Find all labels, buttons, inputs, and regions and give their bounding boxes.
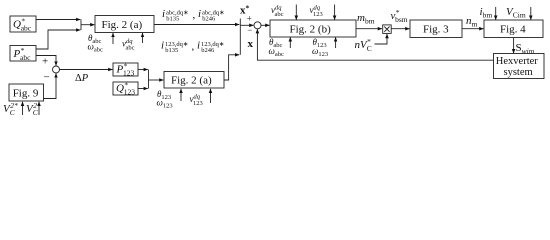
block Fig. 2 (a) bottom: [164, 72, 224, 89]
wire arrow theta/omega abc into Fig. 2 (a) top: [112, 33, 114, 44]
wire feedback x from Hexverter into S2: [257, 29, 493, 60]
svg-text:vdq123: vdq123: [190, 94, 203, 108]
wire arrow v dq 123 into Fig. 2 (a) bottom: [210, 89, 212, 103]
label i b135 abc,dq* , i b246 abc,dq*: [162, 8, 225, 22]
svg-text:Hexverter: Hexverter: [496, 56, 538, 67]
svg-text:VCim: VCim: [506, 6, 526, 20]
block Fig. 2 (a) top: [95, 16, 154, 33]
svg-text:Fig. 3: Fig. 3: [423, 24, 449, 36]
wire Qabc* to bus1: [36, 19, 80, 21]
wire multiplier to Fig. 3: [391, 28, 409, 30]
wire nVC* into multiplier bottom: [375, 34, 388, 44]
svg-text:+: +: [247, 13, 252, 23]
svg-text:Fig. 2 (a): Fig. 2 (a): [102, 19, 143, 31]
block Fig. 2 (b): [270, 20, 356, 37]
svg-text:ibm: ibm: [480, 6, 493, 20]
block P123*: [113, 62, 138, 78]
svg-text:vdqabc: vdqabc: [122, 38, 135, 52]
svg-text:v*bsm: v*bsm: [391, 8, 408, 24]
wire Fig. 3 to Fig. 4: [462, 28, 483, 30]
block Hexverter system: [494, 54, 545, 79]
svg-text:mbm: mbm: [357, 12, 375, 26]
svg-text:,: ,: [192, 40, 195, 52]
wire bus1 to Fig. 2 (a) top: [81, 24, 94, 26]
svg-text:−: −: [44, 72, 50, 84]
svg-text:vdqabc: vdqabc: [271, 5, 284, 19]
svg-text:i: i: [198, 8, 201, 20]
wire arrow theta/omega 123 into Fig. 2 (a) bottom: [180, 89, 182, 101]
bus2 vertical: [148, 70, 150, 89]
svg-text:b135: b135: [166, 15, 179, 22]
svg-text:i: i: [161, 40, 164, 52]
wire arrow v dq abc down into Fig. 2 (b): [295, 5, 297, 20]
wire VC2 arrow into Fig. 9: [38, 102, 40, 115]
wire S1 to P123*: [60, 69, 113, 71]
block Qabc*: [10, 16, 36, 33]
wire Fig. 4 down to Hexverter: [513, 38, 515, 54]
wire arrow i bm down into Fig. 4: [495, 7, 497, 20]
svg-text:Fig. 4: Fig. 4: [500, 24, 526, 36]
wire Fig. 2 (b) output m bm to multiplier: [356, 28, 382, 30]
wire arrow theta/omega 123 up into Fig. 2 (b): [335, 37, 337, 48]
svg-text:nm: nm: [466, 15, 478, 29]
svg-text:i: i: [197, 40, 200, 52]
svg-text:+: +: [42, 56, 48, 68]
svg-text:b135: b135: [165, 47, 178, 54]
wire Pabc* up to bus1: [36, 30, 80, 49]
wire arrow v dq 123 down into Fig. 2 (b): [334, 5, 336, 20]
wire Fig. 9 up into S1: [44, 74, 57, 99]
wire VC2* arrow into Fig. 9: [22, 102, 24, 115]
svg-text:Fig. 2 (b): Fig. 2 (b): [290, 23, 332, 35]
wire S2 to Fig. 2 (b): [261, 24, 269, 26]
sum junction S2 circle: [254, 22, 261, 29]
multiplier box with X: [383, 25, 392, 34]
svg-text:Fig. 2 (a): Fig. 2 (a): [171, 75, 212, 87]
wire P123* to bus2: [138, 69, 148, 71]
label i b135 123,dq* , i b246 123,dq*: [161, 40, 224, 54]
wire Fig. 2 (a) top output to bus3: [154, 24, 239, 26]
sum junction S1 circle: [53, 66, 60, 73]
bus3 vertical x*: [239, 19, 241, 55]
wire Pabc* down into S1: [36, 56, 56, 66]
svg-text:b246: b246: [202, 15, 216, 22]
svg-text:ΔP: ΔP: [75, 73, 89, 84]
wire arrow theta/omega abc up into Fig. 2 (b): [289, 37, 291, 48]
block Pabc*: [10, 46, 36, 63]
block Fig. 9: [9, 84, 44, 101]
block Q123*: [113, 81, 138, 97]
wire arrow v dq abc into Fig. 2 (a) top: [142, 33, 144, 43]
wire Fig. 2 (a) bottom output to bus3: [224, 55, 239, 80]
wire bus3 into S2: [240, 24, 253, 26]
block Fig. 3: [410, 20, 462, 38]
wire arrow V Cim down into Fig. 4: [530, 7, 532, 20]
wire Q123* to bus2: [138, 88, 148, 90]
svg-text:nVC*: nVC*: [355, 37, 372, 53]
svg-text:system: system: [504, 67, 533, 78]
svg-text:VC2: VC2: [26, 101, 39, 117]
svg-text:Fig. 9: Fig. 9: [13, 87, 39, 99]
svg-text:−: −: [247, 25, 252, 35]
svg-text:i: i: [162, 8, 165, 20]
svg-text:,: ,: [193, 9, 196, 21]
block Fig. 4: [484, 20, 543, 38]
bus1 vertical: [80, 20, 82, 31]
svg-text:vdq123: vdq123: [310, 5, 323, 19]
svg-text:x: x: [248, 38, 254, 50]
svg-text:VC2*: VC2*: [3, 101, 18, 117]
svg-text:b246: b246: [201, 47, 215, 54]
wire bus2 to Fig. 2 (a) bottom: [149, 79, 164, 81]
